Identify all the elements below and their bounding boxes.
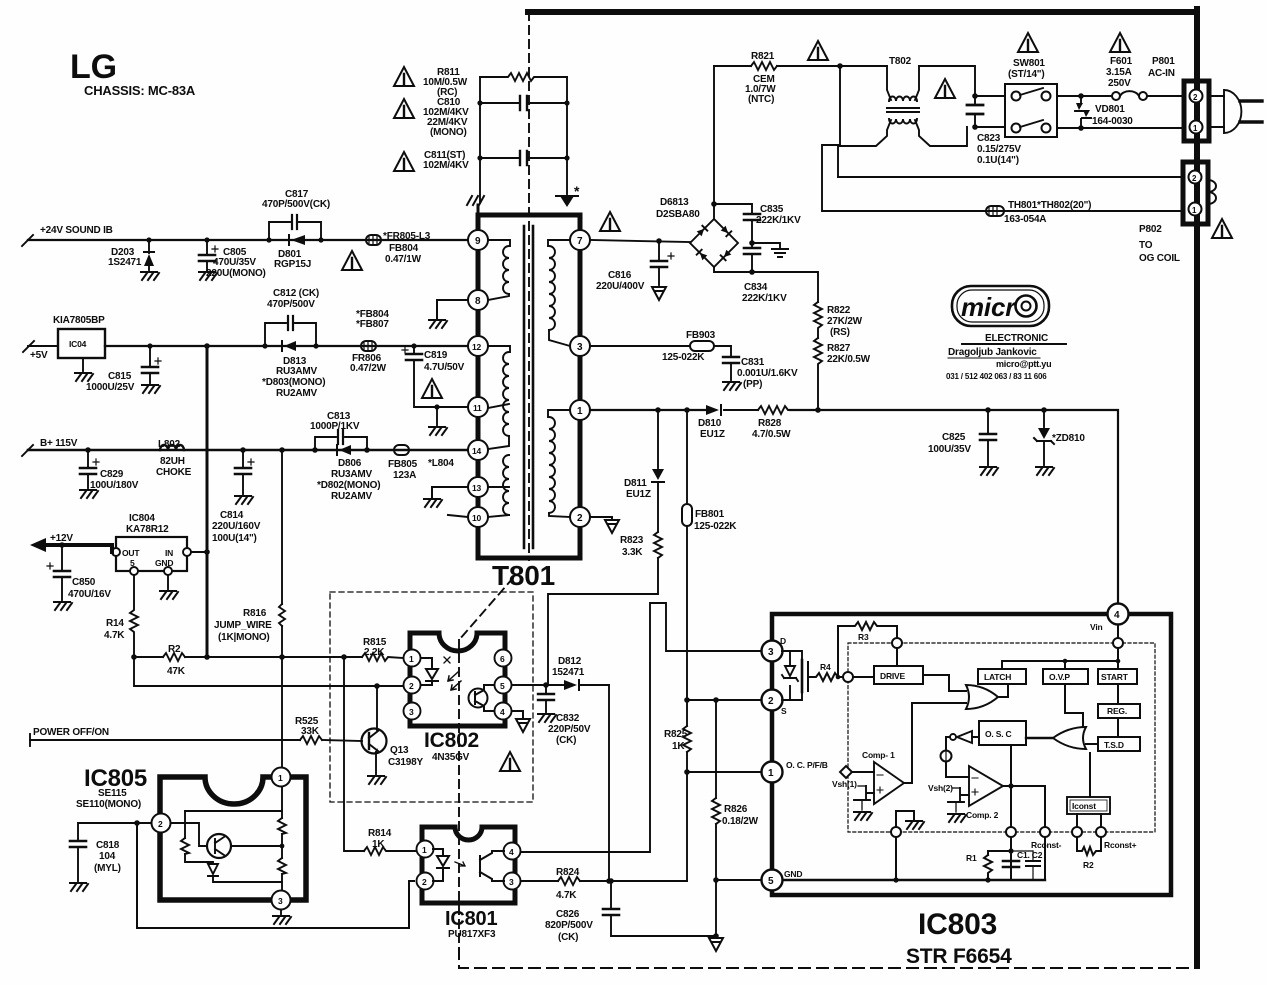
svg-text:SW801: SW801	[1013, 58, 1045, 69]
svg-text:(1K|MONO): (1K|MONO)	[218, 632, 270, 643]
svg-text:031 / 512 402 063 / 83 11 6: 031 / 512 402 063 / 83 11 606	[946, 372, 1047, 381]
svg-text:LATCH: LATCH	[984, 672, 1011, 682]
node circle (Rconst-)	[1031, 827, 1082, 850]
svg-text:RU2AMV: RU2AMV	[331, 491, 373, 502]
svg-text:2: 2	[422, 877, 427, 887]
diode D811 EU1Z	[624, 410, 664, 532]
wire node row y=657 with resistor R2 47K	[131, 644, 362, 677]
capacitor C831 0.001U/1.6KV (PP)	[723, 346, 798, 390]
pin 13 (T801)	[468, 477, 488, 497]
svg-text:220U/160V: 220U/160V	[212, 521, 261, 532]
svg-text:R827: R827	[827, 343, 851, 354]
block LATCH	[978, 669, 1026, 684]
T801 winding arcs right group2 (pins 1-2)	[548, 410, 570, 517]
svg-text:4.7/0.5W: 4.7/0.5W	[752, 429, 791, 440]
svg-text:RU2AMV: RU2AMV	[276, 388, 318, 399]
bridge rectifier D6813 D2SBA80	[656, 197, 738, 267]
svg-text:GND: GND	[784, 869, 802, 879]
GND rail inside IC803	[783, 837, 1045, 883]
svg-text:0.1U(14"): 0.1U(14")	[977, 155, 1019, 166]
svg-text:D811: D811	[624, 478, 647, 489]
wire OR1 out to LATCH	[998, 684, 1008, 697]
svg-text:Iconst: Iconst	[1072, 801, 1096, 811]
svg-text:C819: C819	[424, 350, 448, 361]
switch SW801 (ST/14")	[975, 58, 1057, 137]
svg-text:6: 6	[500, 654, 505, 664]
ferrite bead FB903 125-022K	[590, 330, 731, 363]
svg-text:RGP15J: RGP15J	[274, 259, 311, 270]
svg-text:152471: 152471	[552, 667, 585, 678]
svg-text:*FB807: *FB807	[356, 319, 389, 330]
frame right border	[1194, 9, 1200, 966]
ground (C805)	[199, 272, 217, 280]
capacitor C1 (IC803)	[1003, 851, 1019, 880]
capacitor C816 220U/400V	[596, 241, 674, 292]
svg-text:micro@ptt.yu: micro@ptt.yu	[996, 359, 1051, 369]
capacitor C819 4.7U/50V	[402, 343, 468, 407]
svg-text:33K: 33K	[301, 726, 320, 737]
gate OR1	[966, 685, 998, 709]
svg-text:R2: R2	[168, 644, 181, 655]
diode D810 EU1Z	[698, 405, 725, 440]
vertical B+ branch through R816 to IC805 pin1	[279, 447, 285, 768]
svg-text:0.47/1W: 0.47/1W	[385, 254, 422, 265]
svg-text:250V: 250V	[1108, 78, 1131, 89]
svg-text:(MONO): (MONO)	[430, 127, 467, 138]
svg-text:IC802: IC802	[424, 729, 479, 752]
resistor R822 27K/2W (RS)	[814, 302, 863, 338]
inverter and current source to comp2	[941, 731, 980, 777]
svg-text:IC04: IC04	[69, 339, 87, 349]
ground (IC804 GND)	[167, 575, 169, 589]
svg-text:T801: T801	[492, 560, 555, 591]
svg-text:RU3AMV: RU3AMV	[331, 469, 373, 480]
dashed box around IC802	[330, 592, 533, 802]
svg-text:4.7K: 4.7K	[556, 890, 577, 901]
ferrite bead FB805 123A	[388, 445, 454, 481]
transformer T801 outline	[478, 215, 580, 591]
svg-text:REG.: REG.	[1107, 706, 1127, 716]
svg-text:R14: R14	[106, 618, 124, 629]
svg-text:C3198Y: C3198Y	[388, 757, 423, 768]
svg-text:TH801*TH802(20"): TH801*TH802(20")	[1008, 200, 1091, 211]
svg-text:(RS): (RS)	[830, 327, 850, 338]
svg-text:C823: C823	[977, 133, 1001, 144]
node circle (1045)	[1040, 827, 1050, 837]
svg-text:OUT: OUT	[122, 548, 140, 558]
svg-text:3: 3	[278, 896, 283, 906]
svg-text:R823: R823	[620, 535, 644, 546]
diode D806 RU3AMV	[317, 445, 380, 502]
svg-text:ELECTRONIC: ELECTRONIC	[985, 333, 1048, 344]
svg-text:164-0030: 164-0030	[1092, 116, 1133, 127]
svg-text:2.2K: 2.2K	[364, 647, 385, 658]
svg-text:FB903: FB903	[686, 330, 716, 341]
svg-text:D810: D810	[698, 418, 722, 429]
wire pin13 stub to ground	[432, 487, 468, 497]
pin 9 (T801)	[468, 230, 488, 250]
wire pin10 stub	[448, 515, 468, 517]
ferrite bead FR806	[350, 309, 389, 374]
warning triangle (R811)	[394, 67, 414, 86]
svg-text:LG: LG	[70, 48, 117, 86]
diode D203 1S2471	[108, 237, 154, 270]
diode D801 RGP15J	[274, 235, 311, 270]
warning triangle (T801 top right)	[600, 212, 620, 231]
svg-text:C812 (CK): C812 (CK)	[273, 288, 319, 299]
svg-text:163-054A: 163-054A	[1004, 214, 1046, 225]
pin 5 (IC802)	[495, 677, 512, 694]
capacitor C811(ST) 102M/4KV	[423, 150, 570, 171]
svg-text:Comp. 2: Comp. 2	[966, 810, 999, 820]
svg-text:GND: GND	[155, 558, 173, 568]
wire comp2 out / OSC bottom	[1003, 745, 1045, 827]
svg-text:C826: C826	[556, 909, 580, 920]
svg-text:C1. C2: C1. C2	[1017, 850, 1043, 860]
resistor R811 10M/0.5W (RC)	[423, 67, 567, 98]
pin 2 (IC803)	[762, 690, 788, 717]
snubber ladder left rail	[479, 77, 481, 203]
warning triangle (IC802)	[500, 752, 520, 771]
isolation dashed vertical through IC802/IC801	[458, 640, 460, 948]
resistor R814 1K	[344, 657, 416, 855]
node circle (Rconst+)	[1096, 827, 1137, 850]
ground (C835/C834 node)	[752, 243, 780, 247]
svg-text:1: 1	[409, 654, 414, 664]
pin 3 (IC803)	[762, 636, 787, 662]
svg-text:C831: C831	[741, 357, 765, 368]
capacitor C812 (CK) 470P/500V bracket	[262, 288, 319, 349]
svg-text:D2SBA80: D2SBA80	[656, 209, 700, 220]
ground (C818)	[70, 883, 88, 891]
AC plug symbol	[1209, 90, 1262, 133]
svg-text:PU817XF3: PU817XF3	[448, 929, 496, 940]
wire pin7 to bridge	[590, 238, 690, 244]
svg-text:Vsh(2): Vsh(2)	[928, 783, 953, 793]
svg-text:*L804: *L804	[428, 458, 454, 469]
capacitor C2 (IC803)	[1011, 850, 1043, 880]
warning triangle (P802)	[1212, 219, 1232, 238]
resistor R1 (IC803)	[966, 851, 1011, 880]
ground (ZD810)	[1036, 467, 1054, 475]
svg-text:R3: R3	[858, 632, 869, 642]
pin 3 (IC805)	[272, 891, 291, 910]
svg-text:IN: IN	[165, 548, 173, 558]
wire D812 down to GND row	[606, 685, 612, 884]
pin 1 (IC801)	[417, 841, 434, 858]
T801 core bars	[524, 226, 533, 548]
svg-text:R828: R828	[758, 418, 782, 429]
resistor R816 JUMP_WIRE (1K MONO)	[214, 604, 285, 643]
svg-text:4.7K: 4.7K	[104, 630, 125, 641]
resistor R4	[808, 662, 843, 681]
svg-text:0.18/2W: 0.18/2W	[722, 816, 759, 827]
capacitor C832 220P/50V (CK)	[538, 685, 591, 746]
resistor R826 0.18/2W	[712, 700, 759, 936]
svg-text:123A: 123A	[393, 470, 416, 481]
T801 winding arcs left group1	[488, 246, 509, 300]
svg-text:micr: micr	[961, 292, 1017, 322]
svg-text:L802: L802	[158, 439, 181, 450]
warning triangle (T802)	[935, 79, 955, 98]
ferrite bead FB801 125-022K	[682, 410, 737, 700]
svg-text:D6813: D6813	[660, 197, 689, 208]
thermistor TH801*TH802(20") 163-054A	[822, 200, 1184, 225]
fuse F601 3.15A 250V	[1057, 56, 1184, 100]
warning triangle (C810)	[394, 99, 414, 118]
resistor R823 3.3K	[548, 532, 662, 685]
regulator IC04 KIA7805BP	[23, 315, 105, 371]
node POWER OFF/ON	[30, 727, 362, 746]
diode D812 1S2471	[512, 656, 609, 690]
svg-text:IC804: IC804	[129, 513, 155, 524]
svg-text:C818: C818	[96, 840, 120, 851]
svg-text:4.7U/50V: 4.7U/50V	[424, 362, 465, 373]
svg-text:+5V: +5V	[30, 350, 48, 361]
svg-text:2: 2	[158, 819, 163, 829]
wire pin4 into START	[1113, 625, 1123, 669]
svg-text:Q13: Q13	[390, 745, 409, 756]
ground (T801 top-left corner)	[467, 196, 484, 215]
IC802 internals: LED and phototransistor	[421, 657, 494, 711]
pin 11 (T801)	[468, 397, 488, 417]
capacitor C815 1000U/25V	[86, 343, 161, 393]
svg-text:R814: R814	[368, 828, 392, 839]
svg-text:C816: C816	[608, 270, 632, 281]
svg-text:Vsh(1): Vsh(1)	[832, 779, 857, 789]
svg-text:*D802(MONO): *D802(MONO)	[317, 480, 380, 491]
wire LATCH top rail to pin4	[1002, 659, 1120, 669]
warning triangle (FB804 row)	[342, 251, 362, 270]
ground (Q13)	[368, 776, 386, 784]
svg-text:2: 2	[768, 696, 774, 707]
frame bottom dashed isolation line	[459, 948, 1196, 968]
svg-text:POWER OFF/ON: POWER OFF/ON	[33, 727, 109, 738]
svg-text:B+ 115V: B+ 115V	[40, 438, 78, 449]
svg-text:12: 12	[472, 342, 482, 352]
ground (IC04)	[75, 373, 93, 381]
wire bridge bottom row to R822	[714, 267, 818, 302]
svg-text:1K: 1K	[372, 839, 385, 850]
svg-text:*: *	[574, 183, 580, 199]
node +24V SOUND IB rail	[22, 225, 468, 246]
svg-text:0.15/275V: 0.15/275V	[977, 144, 1021, 155]
svg-text:T802: T802	[889, 56, 912, 67]
micro electronic logo	[946, 286, 1066, 381]
svg-text:100U(14"): 100U(14")	[212, 533, 257, 544]
pin 7 (T801)	[570, 230, 590, 250]
svg-text:CHASSIS: MC-83A: CHASSIS: MC-83A	[84, 83, 196, 98]
svg-text:820P/500V: 820P/500V	[545, 920, 593, 931]
wire IC804 IN to +5V bus	[191, 549, 210, 555]
ground (IC805 pin3)	[280, 910, 282, 914]
svg-text:(MYL): (MYL)	[94, 863, 121, 874]
varistor VD801 164-0030	[1075, 93, 1133, 131]
svg-text:1K: 1K	[672, 741, 685, 752]
resistor R824 4.7K	[521, 867, 687, 901]
resistor R821 CEM 1.0/7W (NTC)	[714, 51, 887, 105]
capacitor C813 1000P/1KV bracket	[310, 411, 370, 453]
pin 4 (IC802)	[495, 703, 512, 720]
svg-text:R821: R821	[751, 51, 775, 62]
svg-text:470U/16V: 470U/16V	[68, 589, 111, 600]
block O.V.P	[1043, 661, 1088, 684]
svg-text:TO: TO	[1139, 240, 1153, 251]
svg-text:R824: R824	[556, 867, 580, 878]
svg-text:C825: C825	[942, 432, 966, 443]
warning triangle (F601)	[1110, 33, 1130, 52]
svg-text:FB804: FB804	[389, 243, 419, 254]
svg-text:125-022K: 125-022K	[694, 521, 737, 532]
inductor L802 82UH CHOKE	[156, 439, 192, 478]
pin 1 (IC802)	[404, 650, 421, 667]
T801 winding arcs left group2 (pins 12-11-14)	[488, 346, 510, 449]
ground (ladder right, hot with star)	[556, 183, 580, 207]
block Iconst	[1067, 753, 1110, 827]
wire pin2 stub to hot ground	[590, 517, 612, 519]
capacitor C810 102M/4KV	[423, 96, 570, 138]
svg-text:P802: P802	[1139, 224, 1162, 235]
resistor R815 2.2K	[362, 637, 403, 661]
svg-text:C850: C850	[72, 577, 96, 588]
svg-text:Rconst+: Rconst+	[1104, 840, 1137, 850]
svg-text:1: 1	[768, 768, 774, 779]
capacitor C825 100U/35V	[928, 410, 996, 465]
svg-text:EU1Z: EU1Z	[626, 489, 651, 500]
svg-text:4N35GV: 4N35GV	[432, 752, 470, 763]
ground (C825)	[980, 467, 998, 475]
capacitor C826 820P/500V (CK)	[545, 878, 719, 943]
isolation dashed line top (through ladder and T801 core)	[528, 12, 530, 560]
svg-text:SE115: SE115	[98, 788, 127, 799]
vertical +5V bus (thick)	[204, 343, 210, 657]
pin 3 (T801)	[570, 336, 590, 356]
svg-text:P801: P801	[1152, 56, 1175, 67]
svg-text:(ST/14"): (ST/14")	[1008, 69, 1044, 80]
warning triangle (C819)	[422, 379, 442, 398]
ground (C831)	[723, 382, 741, 390]
svg-text:4: 4	[1114, 610, 1120, 621]
svg-text:EU1Z: EU1Z	[700, 429, 725, 440]
svg-text:102M/4KV: 102M/4KV	[423, 160, 469, 171]
pin 6 (IC802)	[495, 650, 512, 667]
comparator Comp-1	[851, 750, 904, 804]
T801 primary winding (pins 9-8)	[488, 240, 510, 246]
wire +12V	[30, 533, 112, 552]
svg-text:C829: C829	[100, 469, 124, 480]
block DRIVE	[853, 648, 923, 684]
svg-text:470P/500V(CK): 470P/500V(CK)	[262, 199, 330, 210]
svg-text:KA78R12: KA78R12	[126, 524, 169, 535]
ground (Vsh2)	[948, 814, 966, 822]
pin 3 (IC801)	[504, 873, 521, 890]
svg-text:Vin: Vin	[1090, 622, 1102, 632]
ground (Vsh1)	[854, 812, 872, 820]
svg-text:5: 5	[768, 876, 774, 887]
svg-text:R825: R825	[664, 729, 688, 740]
svg-text:1: 1	[577, 406, 583, 417]
resistor R825 1K	[664, 697, 691, 772]
snubber ladder right rail	[566, 77, 568, 194]
svg-text:C835: C835	[760, 204, 784, 215]
svg-text:5: 5	[500, 681, 505, 691]
diode D813 RU3AMV	[262, 341, 325, 399]
svg-text:R816: R816	[243, 608, 267, 619]
svg-text:C832: C832	[556, 713, 580, 724]
capacitor C850 470U/16V	[47, 542, 111, 600]
node circle (dotted bottom, left)	[891, 827, 901, 837]
wire to IC803 pin5	[716, 879, 760, 881]
wire R821 node down to TH801 line	[822, 63, 843, 211]
pin 2 (IC802)	[404, 677, 421, 694]
pin 14 (T801)	[468, 440, 488, 460]
svg-text:*ZD810: *ZD810	[1052, 433, 1085, 444]
warning triangle (C811)	[394, 152, 414, 171]
op-amp IC805 SE115 regulator block	[76, 765, 306, 900]
svg-text:1000U/25V: 1000U/25V	[86, 382, 135, 393]
svg-text:1000P/1KV: 1000P/1KV	[310, 421, 360, 432]
svg-text:START: START	[1101, 672, 1129, 682]
ground (C850)	[54, 602, 72, 610]
svg-text:(CK): (CK)	[556, 735, 576, 746]
svg-text:27K/2W: 27K/2W	[827, 316, 863, 327]
ground (pin11 stub)	[434, 404, 439, 425]
svg-text:Comp- 1: Comp- 1	[862, 750, 895, 760]
svg-text:C815: C815	[108, 371, 132, 382]
pin 1 (T801)	[570, 400, 590, 420]
block START	[1098, 669, 1137, 684]
svg-text:F601: F601	[1110, 56, 1133, 67]
wire HV rail pin1 to IC803 pin4	[590, 407, 1118, 604]
connector P802 TO DG COIL	[1139, 162, 1216, 264]
svg-text:IC801: IC801	[445, 908, 497, 930]
pin 5 (IC803)	[762, 869, 803, 891]
svg-text:*FR805-L3: *FR805-L3	[383, 231, 431, 242]
svg-text:(NTC): (NTC)	[748, 94, 774, 105]
IC803 inner dotted box	[848, 643, 1155, 832]
svg-text:220U/400V: 220U/400V	[596, 281, 645, 292]
svg-text:1: 1	[422, 845, 427, 855]
svg-text:222K/1KV: 222K/1KV	[756, 215, 801, 226]
svg-text:8: 8	[475, 296, 481, 307]
block O.S.C	[979, 721, 1026, 745]
pin 2 (T801)	[570, 507, 590, 527]
warning triangle (SW801)	[1018, 33, 1038, 52]
pin 10 (T801)	[468, 507, 488, 527]
capacitor C805	[199, 237, 266, 279]
transistor MOSFET (IC803)	[782, 651, 808, 700]
block REG	[1098, 684, 1140, 718]
svg-text:47K: 47K	[167, 666, 186, 677]
zener *ZD810	[1034, 410, 1085, 465]
pin 8 (T801)	[468, 290, 488, 310]
svg-text:C814: C814	[220, 510, 244, 521]
isolation dashed diagonal T801 to optocoupler column	[459, 578, 513, 640]
svg-text:R822: R822	[827, 305, 851, 316]
ground (C829)	[80, 490, 98, 498]
wire IC803 pin2 row	[687, 697, 760, 703]
pin 4 (IC801)	[504, 843, 521, 860]
svg-text:R2: R2	[1083, 860, 1094, 870]
capacitor C835 222K/1KV	[714, 204, 801, 247]
wire DRIVE out to OR1	[923, 675, 966, 691]
svg-text:FB801: FB801	[695, 509, 725, 520]
svg-text:5: 5	[130, 558, 135, 568]
capacitor C823 0.15/275V	[967, 93, 1021, 166]
svg-text:CHOKE: CHOKE	[156, 467, 192, 478]
wire P802 pin2 line	[838, 176, 1184, 178]
svg-text:AC-IN: AC-IN	[1148, 68, 1175, 79]
